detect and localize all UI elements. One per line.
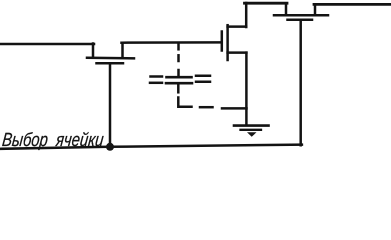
capacitor C: bottom lead dash 1 xyxy=(177,86,180,93)
wire: word/select line (bottom rail) xyxy=(1,145,302,149)
transistor T2 (storage/readout MOSFET, middle, vertical): gate bar xyxy=(221,32,224,51)
capacitor C: bottom lead corner dash xyxy=(178,98,191,107)
wire: T1 source to T2 gate xyxy=(122,41,221,44)
transistor T2: drain stub xyxy=(228,25,247,28)
wire: solid end of dashed lead joining ground node xyxy=(222,107,247,110)
capacitor C: top plate xyxy=(167,76,192,79)
wire: top supply rail, right segment xyxy=(314,3,391,6)
capacitor C: bottom horizontal dash xyxy=(200,106,213,109)
ground: top bar xyxy=(234,124,269,127)
transistor T1: channel bar xyxy=(87,57,134,60)
transistor T3 (load MOSFET, top right): drain stub xyxy=(285,3,288,14)
transistor T2: channel bar xyxy=(226,25,229,60)
transistor T1: gate lead down to select line xyxy=(109,64,112,147)
capacitor C (storage, dashed leads): top lead dash 1 xyxy=(177,44,180,49)
transistor T1: source stub xyxy=(121,43,124,57)
capacitor C: right dashed plate extension, upper xyxy=(196,75,210,78)
ground: middle bar xyxy=(241,129,262,131)
wire: T3 gate lead down to output column line xyxy=(299,21,302,146)
capacitor C: bottom plate xyxy=(166,82,192,85)
capacitor C: left dashed plate extension, lower xyxy=(150,82,162,85)
wire: top supply rail, left segment xyxy=(245,2,288,5)
ground: bottom triangle xyxy=(247,132,257,137)
node: junction dot of T1 gate and select line xyxy=(106,143,114,151)
capacitor C: top lead dash 2 xyxy=(177,55,180,61)
capacitor C: top lead dash 3 xyxy=(177,70,180,77)
capacitor C: right dashed plate extension, lower xyxy=(196,81,210,84)
label: net name "Выбор ячейки" (cell select) xyxy=(1,130,105,152)
transistor T3: gate bar xyxy=(288,19,313,22)
wire: bit line into T1 drain (left horizontal) xyxy=(0,43,94,46)
transistor T1 (access MOSFET, left): drain stub xyxy=(92,44,95,58)
transistor T3: source stub xyxy=(314,4,317,14)
wire: T2 source down to ground xyxy=(245,53,248,125)
transistor T3: channel bar xyxy=(274,14,328,17)
capacitor C: left dashed plate extension, upper xyxy=(151,75,163,78)
wire: T2 drain up to supply rail xyxy=(245,3,248,27)
transistor T1: gate bar xyxy=(97,62,124,65)
transistor T2: source stub xyxy=(228,51,247,54)
